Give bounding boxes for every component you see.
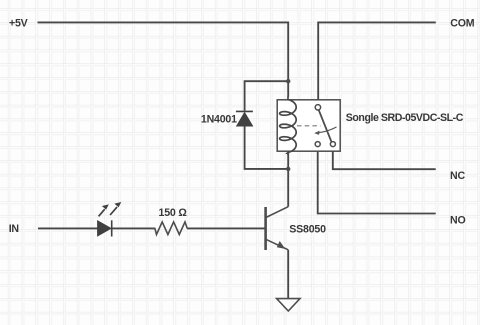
wire LED to resistor xyxy=(112,227,155,229)
wire coil-bottom to collector xyxy=(287,152,289,207)
wire COM xyxy=(318,22,436,104)
svg-text:NC: NC xyxy=(450,170,465,182)
LED emission arrows xyxy=(99,202,122,216)
diode D1 1N4001 xyxy=(236,111,253,125)
svg-text:1N4001: 1N4001 xyxy=(201,114,237,126)
wire resistor to base xyxy=(187,227,265,229)
relay NC terminal xyxy=(330,142,335,147)
wire IN xyxy=(38,227,98,229)
relay NO terminal xyxy=(315,142,320,147)
relay COM terminal xyxy=(315,105,320,110)
junction node diode/coil top xyxy=(286,79,290,83)
wire NC xyxy=(333,147,436,170)
svg-text:IN: IN xyxy=(9,223,19,235)
relay arm motion arrow xyxy=(318,127,337,133)
svg-text:150 Ω: 150 Ω xyxy=(159,207,188,219)
relay U1 box xyxy=(277,100,340,151)
relay switch arm xyxy=(319,110,332,142)
wire emitter down xyxy=(287,250,289,299)
svg-text:NO: NO xyxy=(450,215,466,227)
ground xyxy=(277,299,300,311)
wire NO xyxy=(318,147,436,214)
resistor R1 150ohm xyxy=(151,222,187,235)
LED D2 xyxy=(98,220,112,236)
svg-text:Songle SRD-05VDC-SL-C: Songle SRD-05VDC-SL-C xyxy=(346,112,464,124)
relay actuation dashed link xyxy=(297,125,321,127)
junction node coil/diode/collector xyxy=(286,167,290,171)
wire diode top xyxy=(245,81,289,110)
wire diode bottom xyxy=(245,127,289,169)
relay coil xyxy=(280,97,297,156)
svg-text:SS8050: SS8050 xyxy=(289,224,326,236)
svg-text:COM: COM xyxy=(450,18,474,30)
wire +5V horizontal xyxy=(38,22,289,96)
transistor Q1 SS8050 xyxy=(266,207,289,250)
svg-text:+5V: +5V xyxy=(9,17,28,29)
